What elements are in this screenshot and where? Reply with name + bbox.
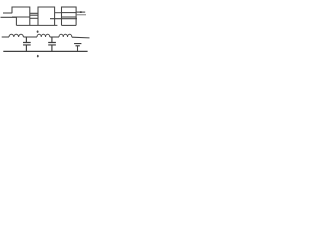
- node label a: [37, 30, 39, 32]
- wire through box U3: [62, 12, 77, 14]
- wire node 1: [23, 36, 37, 38]
- wire input lead lower: [1, 17, 17, 25]
- wire link pair 1: [30, 13, 38, 15]
- wire node 2: [50, 36, 59, 38]
- wire output upper: [76, 11, 85, 13]
- wire ground rail: [3, 50, 87, 52]
- node label b: [37, 55, 39, 58]
- node port tick: [80, 11, 82, 13]
- wire output lower: [76, 14, 86, 16]
- wire link pair 2: [55, 12, 62, 14]
- wire link lower 1: [30, 17, 38, 19]
- inductor L1: [9, 34, 23, 37]
- ground: [74, 44, 81, 52]
- wire bottom rail under box U3: [62, 24, 77, 26]
- box U2: [38, 7, 55, 25]
- inductor L2: [37, 34, 50, 37]
- wire input lead upper: [3, 12, 12, 14]
- box U3 side extensions: [62, 17, 77, 25]
- inductor L3: [59, 34, 72, 37]
- box U1: [12, 7, 30, 25]
- capacitor C2: [48, 37, 56, 51]
- box U3: [62, 7, 77, 17]
- wire under boxes: [50, 18, 77, 20]
- wire ladder input: [2, 36, 9, 38]
- capacitor C1: [23, 37, 31, 51]
- wire ladder output: [72, 36, 90, 39]
- wire bottom rail of top network: [16, 24, 57, 26]
